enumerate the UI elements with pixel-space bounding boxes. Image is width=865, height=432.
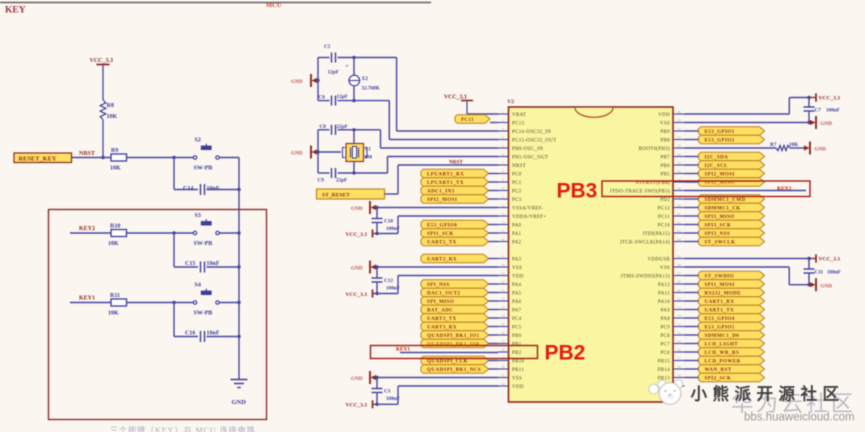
svg-text:16: 16 [501, 237, 505, 241]
svg-text:VCC_3.3: VCC_3.3 [819, 96, 841, 102]
svg-text:100nF: 100nF [386, 226, 400, 232]
svg-text:E53_GPIO5: E53_GPIO5 [705, 325, 735, 331]
svg-text:PB8: PB8 [660, 139, 670, 144]
svg-text:10nF: 10nF [207, 331, 220, 337]
svg-text:63: 63 [677, 229, 681, 233]
svg-text:MCU: MCU [266, 2, 282, 9]
svg-text:PC6: PC6 [660, 351, 670, 356]
svg-text:E53_GPIO2: E53_GPIO2 [705, 138, 735, 144]
svg-text:SPI2_MOSI: SPI2_MOSI [705, 172, 735, 178]
svg-text:66: 66 [677, 263, 681, 267]
svg-text:5: 5 [502, 144, 504, 148]
svg-text:PC3: PC3 [512, 198, 522, 203]
svg-text:7: 7 [502, 161, 504, 165]
svg-text:10nF: 10nF [207, 186, 220, 192]
svg-text:UART3_TX: UART3_TX [427, 316, 457, 322]
svg-text:VSS: VSS [512, 266, 522, 271]
svg-text:100nF: 100nF [827, 270, 841, 276]
svg-text:17: 17 [501, 254, 505, 258]
svg-text:VDD: VDD [512, 385, 524, 390]
svg-text:LCD_LIGHT: LCD_LIGHT [705, 342, 739, 348]
svg-text:30: 30 [501, 365, 505, 369]
svg-text:67: 67 [677, 271, 681, 275]
svg-text:VSS: VSS [660, 266, 670, 271]
svg-text:VCC_3.3: VCC_3.3 [346, 403, 368, 409]
svg-text:70: 70 [677, 297, 681, 301]
svg-text:GND: GND [351, 266, 363, 272]
svg-text:bbs.huaweicloud.com: bbs.huaweicloud.com [744, 412, 855, 424]
svg-text:3: 3 [502, 127, 504, 131]
svg-text:SW-PB: SW-PB [194, 311, 213, 317]
svg-text:C9: C9 [318, 178, 325, 184]
svg-text:PA9: PA9 [661, 309, 671, 314]
svg-text:22: 22 [501, 297, 505, 301]
svg-text:I2C_SCL: I2C_SCL [705, 163, 729, 169]
svg-text:PC4: PC4 [512, 317, 522, 322]
svg-text:69: 69 [677, 288, 681, 292]
svg-text:PB11: PB11 [512, 368, 524, 373]
svg-text:JTCK-SWCLK(PA14): JTCK-SWCLK(PA14) [620, 241, 670, 246]
svg-text:SPI3_MISO: SPI3_MISO [705, 214, 735, 220]
svg-text:PB9: PB9 [660, 130, 670, 135]
svg-text:C8: C8 [320, 124, 327, 130]
svg-text:4: 4 [502, 135, 504, 139]
svg-text:DAC1_OUT2: DAC1_OUT2 [427, 291, 460, 297]
svg-text:I2C_SDA: I2C_SDA [705, 155, 729, 161]
svg-text:KEY2: KEY2 [79, 226, 95, 232]
svg-text:R10: R10 [110, 224, 120, 230]
svg-text:GND: GND [351, 376, 363, 382]
svg-text:PB6: PB6 [660, 164, 670, 169]
svg-text:R8: R8 [107, 103, 114, 109]
svg-text:PB3: PB3 [557, 180, 598, 203]
svg-text:VCC_3.3: VCC_3.3 [444, 95, 467, 101]
svg-text:2: 2 [502, 118, 504, 122]
svg-text:71: 71 [677, 305, 681, 309]
svg-text:VDDUSB: VDDUSB [648, 258, 671, 263]
svg-text:PC7: PC7 [660, 343, 670, 348]
svg-text:C6: C6 [319, 94, 326, 100]
svg-text:VDD: VDD [658, 113, 670, 118]
svg-text:UART2_TX: UART2_TX [427, 240, 457, 246]
svg-text:JTMS-SWDIO(PA13): JTMS-SWDIO(PA13) [621, 275, 670, 280]
svg-text:50: 50 [677, 118, 681, 122]
svg-text:PA1: PA1 [512, 232, 522, 237]
svg-text:PA7: PA7 [512, 309, 522, 314]
svg-text:79: 79 [677, 373, 681, 377]
svg-text:PC5: PC5 [512, 326, 522, 331]
svg-text:51: 51 [677, 127, 681, 131]
svg-text:VBAT: VBAT [512, 113, 526, 118]
svg-text:PH0-OSC_IN: PH0-OSC_IN [512, 147, 543, 152]
svg-text:GND: GND [815, 147, 827, 153]
svg-text:PA12: PA12 [658, 283, 670, 288]
svg-text:JTDI(PA15): JTDI(PA15) [642, 232, 670, 237]
svg-text:8M: 8M [365, 155, 373, 161]
svg-text:22pF: 22pF [336, 178, 347, 184]
svg-text:PH1-OSC_OUT: PH1-OSC_OUT [512, 156, 548, 161]
svg-text:C15: C15 [185, 261, 195, 267]
svg-text:R9: R9 [111, 148, 118, 154]
svg-text:PD2: PD2 [660, 198, 670, 203]
svg-text:SPI_NSS: SPI_NSS [427, 282, 450, 288]
svg-text:NJTRST(PB4): NJTRST(PB4) [635, 181, 670, 186]
svg-text:C10: C10 [384, 219, 393, 225]
svg-text:PA11: PA11 [658, 292, 670, 297]
svg-text:22pF: 22pF [337, 124, 348, 130]
svg-text:10K: 10K [108, 311, 119, 317]
svg-text:PC1: PC1 [512, 181, 522, 186]
svg-text:VSSA/VREF-: VSSA/VREF- [512, 207, 544, 212]
svg-text:PC2: PC2 [512, 190, 522, 195]
svg-text:PA5: PA5 [512, 292, 522, 297]
svg-text:23: 23 [501, 305, 505, 309]
svg-text:13: 13 [501, 212, 505, 216]
svg-text:77: 77 [677, 356, 681, 360]
svg-text:74: 74 [677, 331, 681, 335]
svg-text:20: 20 [501, 280, 505, 284]
svg-text:64: 64 [677, 237, 681, 241]
svg-text:GND: GND [232, 399, 247, 406]
svg-text:小熊派开源社区: 小熊派开源社区 [691, 384, 845, 404]
svg-text:9: 9 [502, 178, 504, 182]
svg-text:PA6: PA6 [512, 300, 522, 305]
svg-text:31: 31 [501, 373, 505, 377]
svg-text:68: 68 [677, 280, 681, 284]
svg-text:X1: X1 [365, 147, 372, 153]
svg-text:PC13: PC13 [461, 118, 474, 123]
svg-text:10: 10 [501, 186, 505, 190]
svg-text:75: 75 [677, 339, 681, 343]
svg-text:PB10: PB10 [512, 360, 525, 365]
svg-text:10K: 10K [108, 241, 119, 247]
svg-text:+: + [346, 65, 349, 70]
svg-text:RESET_KEY: RESET_KEY [19, 156, 57, 163]
svg-text:18: 18 [501, 263, 505, 267]
svg-text:R7: R7 [770, 142, 777, 148]
svg-text:PC8: PC8 [660, 334, 670, 339]
svg-text:R11: R11 [110, 293, 120, 299]
svg-text:BAT_ADC: BAT_ADC [427, 308, 453, 314]
svg-text:100nF: 100nF [386, 396, 400, 402]
svg-text:12: 12 [501, 203, 505, 207]
svg-text:GND: GND [291, 151, 303, 157]
svg-text:LPUART1_TX: LPUART1_TX [427, 180, 464, 186]
svg-text:S4: S4 [195, 283, 201, 289]
svg-text:SPI1_MOSI: SPI1_MOSI [705, 282, 735, 288]
svg-text:49: 49 [677, 110, 681, 114]
svg-text:E53_GPIO1: E53_GPIO1 [705, 129, 735, 135]
svg-text:78: 78 [677, 365, 681, 369]
svg-text:SDMMC1_D0: SDMMC1_D0 [705, 333, 740, 339]
svg-text:E53_GPIO0: E53_GPIO0 [427, 223, 457, 229]
svg-text:NRST: NRST [79, 151, 95, 157]
svg-text:ST_SWCLK: ST_SWCLK [705, 240, 736, 246]
svg-text:KEY2: KEY2 [777, 186, 792, 192]
svg-text:U2: U2 [508, 99, 515, 105]
svg-text:25: 25 [501, 322, 505, 326]
svg-text:19: 19 [501, 271, 505, 275]
svg-text:PA10: PA10 [658, 300, 670, 305]
svg-text:PC0: PC0 [512, 173, 522, 178]
svg-text:SPI2_SCK: SPI2_SCK [705, 376, 732, 382]
svg-text:PC11: PC11 [658, 215, 670, 220]
svg-text:61: 61 [677, 212, 681, 216]
svg-text:SPI3_SCK: SPI3_SCK [705, 223, 732, 229]
svg-text:1: 1 [502, 110, 504, 114]
svg-text:12pF: 12pF [328, 70, 339, 76]
svg-text:PB15: PB15 [658, 360, 671, 365]
svg-text:KEY1: KEY1 [79, 296, 95, 302]
svg-text:10K: 10K [107, 114, 118, 120]
svg-text:VSS: VSS [660, 122, 670, 127]
svg-text:GND: GND [821, 283, 833, 289]
svg-text:24: 24 [501, 314, 505, 318]
svg-text:PA4: PA4 [512, 283, 522, 288]
svg-text:10nF: 10nF [207, 261, 220, 267]
svg-text:C11: C11 [815, 270, 824, 276]
svg-text:KEY1: KEY1 [396, 347, 410, 353]
svg-text:QUADSPI_BK1_IO1: QUADSPI_BK1_IO1 [427, 333, 479, 339]
svg-text:LPUART1_RX: LPUART1_RX [427, 172, 464, 178]
svg-text:11: 11 [501, 195, 505, 199]
svg-text:6: 6 [502, 152, 504, 156]
svg-text:C16: C16 [185, 331, 195, 337]
svg-text:SPI2_MOSI: SPI2_MOSI [427, 197, 457, 203]
svg-text:QUADSPI_CLK: QUADSPI_CLK [427, 359, 468, 365]
svg-text:VCC_3.3: VCC_3.3 [90, 58, 114, 64]
svg-text:C7: C7 [815, 108, 822, 114]
svg-text:54: 54 [677, 152, 681, 156]
svg-text:27: 27 [501, 339, 505, 343]
svg-text:LCD_POWER: LCD_POWER [705, 359, 741, 365]
svg-text:PA8: PA8 [661, 317, 671, 322]
svg-text:S3: S3 [195, 213, 201, 219]
svg-text:72: 72 [677, 314, 681, 318]
svg-text:PA2: PA2 [512, 241, 522, 246]
svg-text:NRST: NRST [512, 164, 526, 169]
svg-text:UART3_RX: UART3_RX [427, 325, 457, 331]
svg-text:8: 8 [502, 169, 504, 173]
svg-text:PC10: PC10 [658, 224, 671, 229]
svg-text:SPI1_SCK: SPI1_SCK [427, 231, 454, 237]
svg-text:12pF: 12pF [337, 94, 348, 100]
svg-text:UART1_RX: UART1_RX [705, 299, 735, 305]
svg-text:SW-PB: SW-PB [194, 241, 213, 247]
svg-text:56: 56 [677, 169, 681, 173]
svg-text:32.768K: 32.768K [362, 86, 380, 92]
svg-text:WAN_RST: WAN_RST [705, 367, 732, 373]
svg-text:ST_RESET: ST_RESET [322, 193, 350, 199]
svg-text:C3: C3 [384, 389, 391, 395]
svg-text:PC14-OSC32_IN: PC14-OSC32_IN [512, 130, 551, 135]
svg-text:KEY: KEY [5, 6, 26, 16]
svg-text:73: 73 [677, 322, 681, 326]
svg-text:ADC1_IN3: ADC1_IN3 [427, 189, 455, 195]
svg-text:21: 21 [501, 288, 505, 292]
svg-text:GND: GND [821, 121, 833, 127]
svg-text:28: 28 [501, 348, 505, 352]
svg-text:100nF: 100nF [386, 286, 400, 292]
svg-text:QUADSPI_BK1_IO0: QUADSPI_BK1_IO0 [427, 342, 479, 348]
svg-text:QUADSPI_BK1_NCS: QUADSPI_BK1_NCS [427, 367, 481, 373]
svg-text:X2: X2 [362, 76, 369, 82]
svg-text:PB2: PB2 [545, 342, 586, 365]
svg-text:VCC_3.3: VCC_3.3 [346, 232, 368, 238]
svg-text:32: 32 [501, 382, 505, 386]
svg-text:PB0: PB0 [512, 334, 522, 339]
svg-text:VCC_3.3: VCC_3.3 [346, 292, 368, 298]
svg-text:58: 58 [677, 186, 681, 190]
svg-text:C5: C5 [324, 44, 331, 50]
svg-text:BOOT0(PH3): BOOT0(PH3) [639, 147, 670, 152]
svg-text:VDD: VDD [512, 275, 524, 280]
svg-text:NRST: NRST [449, 160, 463, 166]
svg-text:62: 62 [677, 220, 681, 224]
svg-text:PC13: PC13 [512, 122, 525, 127]
svg-text:PB5: PB5 [660, 173, 670, 178]
svg-text:RS232_MODE: RS232_MODE [705, 291, 742, 297]
svg-text:PB14: PB14 [658, 368, 671, 373]
svg-text:100nF: 100nF [826, 108, 840, 114]
svg-text:15: 15 [501, 229, 505, 233]
svg-text:65: 65 [677, 254, 681, 258]
svg-text:52: 52 [677, 135, 681, 139]
svg-text:60: 60 [677, 203, 681, 207]
svg-text:PC15-OSC32_OUT: PC15-OSC32_OUT [512, 139, 556, 144]
svg-text:VDDA/VREF+: VDDA/VREF+ [512, 215, 546, 220]
svg-text:14: 14 [501, 220, 505, 224]
svg-text:VSS: VSS [512, 377, 522, 382]
svg-text:10K: 10K [789, 142, 798, 148]
svg-text:SDMMC1_CMD: SDMMC1_CMD [705, 197, 746, 203]
svg-text:C12: C12 [384, 278, 393, 284]
svg-text:LCD_WR_RS: LCD_WR_RS [705, 350, 740, 356]
svg-text:26: 26 [501, 331, 505, 335]
svg-text:10K: 10K [110, 166, 121, 172]
svg-text:E53_GPIO4: E53_GPIO4 [705, 316, 735, 322]
svg-text:UART1_TX: UART1_TX [705, 308, 735, 314]
svg-text:SPI3_NSS: SPI3_NSS [705, 231, 731, 237]
svg-text:C14: C14 [183, 186, 193, 192]
svg-text:JTDO-TRACE SWO(PB3): JTDO-TRACE SWO(PB3) [610, 190, 670, 195]
svg-text:三个按键（KEY）与 MCU 连接电路: 三个按键（KEY）与 MCU 连接电路 [110, 425, 256, 432]
svg-text:76: 76 [677, 348, 681, 352]
svg-text:ST_SWDIO: ST_SWDIO [705, 274, 735, 280]
svg-text:S2: S2 [195, 138, 201, 144]
svg-text:53: 53 [677, 144, 681, 148]
svg-text:UART2_RX: UART2_RX [427, 257, 457, 263]
svg-text:GND: GND [291, 79, 303, 85]
svg-text:GND: GND [351, 206, 363, 212]
svg-text:SW-PB: SW-PB [194, 166, 213, 172]
svg-text:PC12: PC12 [658, 207, 671, 212]
svg-text:VCC_3.3: VCC_3.3 [819, 257, 841, 263]
svg-text:SDMMC1_CK: SDMMC1_CK [705, 206, 741, 212]
svg-text:PB7: PB7 [660, 156, 670, 161]
svg-text:SPI_MISO: SPI_MISO [427, 299, 454, 305]
svg-text:PA3: PA3 [512, 258, 522, 263]
svg-text:PA0: PA0 [512, 224, 522, 229]
svg-text:PB2: PB2 [512, 351, 522, 356]
svg-text:PC9: PC9 [660, 326, 670, 331]
svg-text:55: 55 [677, 161, 681, 165]
